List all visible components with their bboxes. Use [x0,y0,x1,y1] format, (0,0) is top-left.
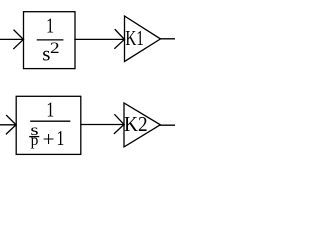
svg-text:1: 1 [46,15,54,39]
svg-text:1: 1 [57,127,65,151]
svg-text:2: 2 [50,38,60,56]
svg-text:K1: K1 [125,26,143,49]
svg-text:1: 1 [46,98,54,122]
svg-text:+: + [43,127,55,151]
svg-text:p: p [31,132,39,149]
svg-text:K2: K2 [124,113,148,136]
